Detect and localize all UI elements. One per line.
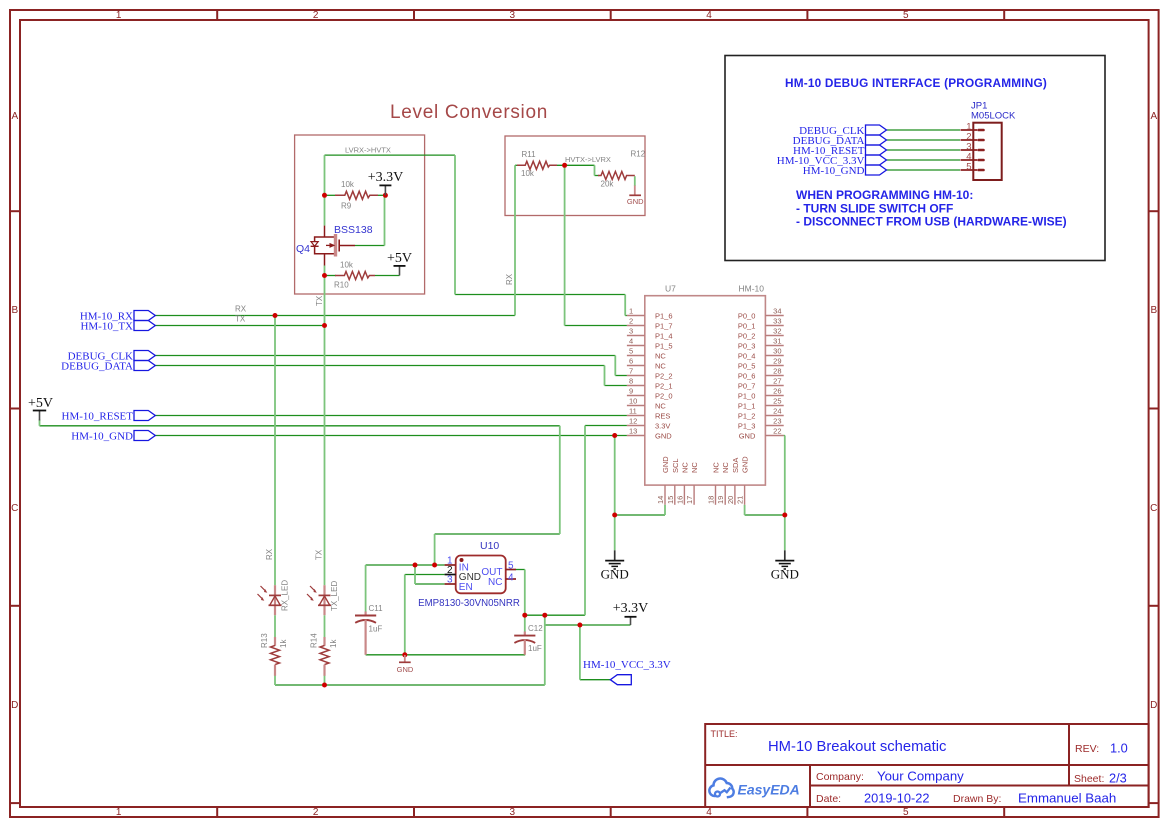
wire R11 left lead	[515, 164, 518, 166]
wire DEBUG_CLK row	[155, 355, 615, 357]
wire R12 to GND	[634, 176, 636, 186]
svg-text:Date:: Date:	[816, 793, 841, 805]
svg-text:P0_7: P0_7	[738, 381, 756, 390]
debug box note text	[796, 188, 1067, 229]
svg-text:R9: R9	[341, 202, 352, 211]
svg-text:32: 32	[773, 327, 781, 336]
U7 right pin stubs 34-22	[765, 316, 783, 436]
svg-text:5: 5	[903, 807, 909, 818]
wire RX row	[155, 315, 515, 317]
svg-text:D: D	[11, 700, 18, 711]
svg-text:P2_1: P2_1	[655, 381, 673, 390]
wire 3.3V net column	[584, 426, 586, 616]
node R9 right +3.3V junction	[383, 193, 388, 198]
port flag HM-10_GND	[71, 430, 155, 442]
ground GND at R12	[627, 186, 644, 206]
node U7 pin13 GND junction	[612, 433, 617, 438]
ground earth symbol right	[771, 550, 799, 581]
wire U10 GND drop	[404, 575, 406, 655]
svg-text:P0_4: P0_4	[738, 351, 756, 360]
wire junction to U7 pin2	[565, 325, 627, 327]
wire HVTX node to R12	[557, 164, 595, 166]
capacitor C12 1uF	[514, 624, 543, 655]
wire DEBUG_DATA to JP1 pin2	[887, 139, 961, 141]
svg-text:23: 23	[773, 417, 781, 426]
wire jog to R12	[594, 165, 596, 175]
resistor R12 20k	[598, 150, 646, 189]
wire pin14 riser	[664, 505, 666, 515]
wire TX column lower	[324, 266, 326, 586]
svg-text:HM-10 DEBUG INTERFACE (PROGRAM: HM-10 DEBUG INTERFACE (PROGRAMMING)	[785, 76, 1047, 90]
svg-text:HM-10 Breakout schematic: HM-10 Breakout schematic	[768, 739, 947, 755]
U7 bottom pin names	[661, 456, 750, 473]
svg-text:10k: 10k	[341, 180, 355, 189]
op-amp U7 HM-10 module body	[645, 284, 766, 486]
svg-text:Q4: Q4	[296, 243, 310, 255]
svg-text:19: 19	[716, 496, 725, 504]
power +5V at left	[28, 396, 53, 421]
title block frame	[705, 724, 1148, 807]
svg-text:HM-10_GND: HM-10_GND	[71, 430, 133, 442]
svg-text:26: 26	[773, 387, 781, 396]
svg-text:C12: C12	[528, 624, 543, 633]
wire LED rail	[275, 684, 545, 686]
port flag DEBUG_DATA	[61, 360, 155, 372]
wire U7 GND left drop	[614, 436, 616, 551]
ground earth symbol left	[601, 550, 629, 581]
svg-text:R14: R14	[309, 633, 318, 648]
wire to VCC flag	[580, 679, 610, 681]
wire TX row	[155, 325, 324, 327]
wire HM-10_VCC_3.3V to JP1 pin4	[887, 159, 961, 161]
svg-text:13: 13	[629, 427, 637, 436]
svg-text:4: 4	[706, 10, 712, 21]
svg-text:8: 8	[629, 377, 633, 386]
power +3.3V at R9	[368, 170, 404, 195]
wire OUT drop	[524, 570, 526, 616]
wire R13 to rail	[274, 676, 276, 686]
svg-text:25: 25	[773, 397, 781, 406]
svg-text:NC: NC	[680, 462, 689, 473]
wire left GND link	[615, 514, 665, 516]
wire VCC flag drop	[579, 625, 581, 680]
svg-text:16: 16	[675, 496, 684, 504]
svg-text:5: 5	[966, 162, 971, 173]
svg-text:TX_LED: TX_LED	[330, 581, 339, 611]
U7 bottom pin stubs 14-21	[665, 485, 745, 505]
svg-text:5: 5	[508, 560, 514, 571]
node capacitor GND junction	[402, 652, 407, 657]
svg-text:P1_3: P1_3	[738, 421, 756, 430]
svg-text:HM-10_GND: HM-10_GND	[803, 165, 865, 177]
wire 3.3V rail to LED rail	[544, 625, 546, 685]
svg-text:RX: RX	[505, 273, 514, 285]
svg-text:15: 15	[666, 496, 675, 504]
port flag HM-10_TX	[80, 320, 155, 332]
svg-text:C: C	[1150, 503, 1157, 514]
wire C12 top lead	[524, 615, 526, 631]
svg-text:RES: RES	[655, 411, 670, 420]
wire R10 leads	[325, 275, 337, 277]
wire RX riser to R11	[514, 165, 516, 315]
svg-text:P2_2: P2_2	[655, 371, 673, 380]
svg-text:P0_3: P0_3	[738, 341, 756, 350]
svg-text:Your Company: Your Company	[877, 769, 964, 784]
wire OUT jog down	[544, 615, 546, 625]
ground GND at capacitors	[397, 655, 414, 674]
svg-text:NC: NC	[488, 577, 502, 588]
svg-text:2019-10-22: 2019-10-22	[864, 791, 929, 806]
svg-text:1k: 1k	[329, 639, 338, 648]
svg-text:P1_5: P1_5	[655, 341, 673, 350]
svg-text:GND: GND	[739, 431, 756, 440]
svg-text:REV:: REV:	[1075, 743, 1099, 755]
svg-text:P0_2: P0_2	[738, 331, 756, 340]
svg-text:1uF: 1uF	[528, 644, 542, 653]
svg-text:HM-10_TX: HM-10_TX	[80, 320, 133, 332]
LED RX_LED	[258, 580, 290, 616]
U7 left pin names	[655, 311, 673, 440]
svg-text:R12: R12	[631, 150, 646, 159]
svg-text:HVTX->LVRX: HVTX->LVRX	[565, 155, 611, 164]
connector JP1 pin numbers	[966, 122, 971, 173]
svg-text:31: 31	[773, 337, 781, 346]
svg-text:3: 3	[510, 10, 516, 21]
svg-text:NC: NC	[655, 351, 666, 360]
svg-text:EasyEDA: EasyEDA	[738, 782, 800, 798]
wire C11 top lead	[365, 565, 367, 612]
svg-text:2: 2	[313, 10, 319, 21]
node HVTX->LVRX junction	[562, 163, 567, 168]
svg-text:C: C	[11, 503, 18, 514]
wire Q4 gate lead	[355, 245, 385, 247]
svg-text:P0_5: P0_5	[738, 361, 756, 370]
svg-text:- DISCONNECT FROM USB (HARDWAR: - DISCONNECT FROM USB (HARDWARE-WISE)	[796, 215, 1067, 229]
svg-text:30: 30	[773, 347, 781, 356]
svg-text:NC: NC	[721, 462, 730, 473]
svg-text:6: 6	[629, 357, 633, 366]
wire HVTX node drop to pin2	[564, 165, 566, 325]
svg-text:GND: GND	[661, 456, 670, 473]
svg-text:EN: EN	[459, 582, 473, 593]
port flag HM-10_RX	[80, 310, 155, 322]
svg-text:EMP8130-30VN05NRR: EMP8130-30VN05NRR	[418, 598, 520, 609]
svg-text:3: 3	[629, 327, 633, 336]
wire U10 EN row	[415, 583, 445, 585]
svg-text:M05LOCK: M05LOCK	[971, 111, 1016, 122]
svg-text:P1_0: P1_0	[738, 391, 756, 400]
svg-text:2: 2	[629, 317, 633, 326]
svg-text:3: 3	[510, 807, 516, 818]
svg-text:17: 17	[685, 496, 694, 504]
svg-text:7: 7	[629, 367, 633, 376]
port flag DEBUG_CLK (debug box)	[799, 125, 886, 137]
EasyEDA logo	[709, 778, 799, 797]
wire HM-10_GND row	[155, 435, 627, 437]
port flag DEBUG_CLK	[68, 350, 156, 362]
svg-text:29: 29	[773, 357, 781, 366]
svg-text:TX: TX	[315, 549, 324, 560]
svg-text:1uF: 1uF	[369, 625, 383, 634]
resistor R10 10k	[334, 261, 375, 290]
node C12/OUT junction	[522, 613, 527, 618]
wire gate riser to +3.3V	[384, 195, 386, 245]
LED TX_LED	[307, 581, 339, 616]
svg-text:28: 28	[773, 367, 781, 376]
svg-text:GND: GND	[771, 567, 799, 582]
resistor R13 1k	[260, 633, 288, 676]
node R14 LED rail junction	[322, 683, 327, 688]
svg-text:TX: TX	[235, 315, 246, 324]
svg-text:C11: C11	[369, 604, 384, 613]
resistor R9 10k	[335, 180, 378, 211]
connector JP1 pin stubs	[961, 130, 978, 170]
wire +5V stem lower	[39, 420, 41, 426]
svg-text:NC: NC	[690, 462, 699, 473]
svg-text:33: 33	[773, 317, 781, 326]
svg-text:U7: U7	[665, 284, 676, 294]
wire DEBUG_CLK to JP1 pin1	[887, 129, 961, 131]
svg-text:1.0: 1.0	[1110, 741, 1128, 756]
svg-text:2: 2	[313, 807, 319, 818]
node R9 left junction	[322, 193, 327, 198]
level conversion sub-circuit box	[295, 135, 425, 294]
wire LVRX->HVTX drop	[454, 155, 456, 294]
svg-text:TX: TX	[315, 295, 324, 306]
wire TX LED to R14	[324, 615, 326, 637]
svg-text:HM-10_RESET: HM-10_RESET	[62, 410, 134, 422]
wire 3.3V row	[545, 624, 631, 626]
svg-text:Drawn By:: Drawn By:	[953, 793, 1001, 805]
svg-text:A: A	[1150, 111, 1157, 122]
node right GND junction	[782, 513, 787, 518]
svg-text:20k: 20k	[601, 180, 615, 189]
node OUT rail jog junction	[542, 613, 547, 618]
port flag HM-10_GND (debug box)	[803, 165, 887, 177]
wire R14 to rail	[324, 676, 326, 686]
transistor Q4 BSS138	[296, 224, 373, 266]
svg-text:+3.3V: +3.3V	[368, 170, 404, 185]
svg-text:GND: GND	[397, 665, 414, 674]
svg-text:10k: 10k	[340, 261, 354, 270]
U7 left pin numbers	[629, 307, 637, 436]
svg-text:5: 5	[629, 347, 633, 356]
node TX/TX_LED junction	[322, 323, 327, 328]
svg-text:NC: NC	[655, 361, 666, 370]
wire HM-10_RESET to JP1 pin3	[887, 149, 961, 151]
svg-text:10k: 10k	[521, 169, 535, 178]
svg-text:P1_1: P1_1	[738, 401, 756, 410]
debug interface box	[725, 56, 1105, 261]
wire OUT rail	[525, 614, 585, 616]
svg-text:GND: GND	[655, 431, 672, 440]
port flag HM-10_VCC_3.3V output	[583, 659, 671, 685]
wire RX LED to R13	[274, 615, 276, 637]
svg-text:14: 14	[656, 496, 665, 504]
svg-text:1: 1	[116, 10, 122, 21]
svg-text:RX: RX	[265, 548, 274, 560]
wire +5V rail	[40, 425, 560, 427]
resistor R11 10k	[517, 150, 557, 178]
node R10 left junction	[322, 273, 327, 278]
wire U7 pin22 drop	[784, 436, 786, 551]
svg-text:1: 1	[116, 807, 122, 818]
svg-text:GND: GND	[741, 456, 750, 473]
svg-text:LVRX->HVTX: LVRX->HVTX	[345, 146, 391, 155]
svg-text:WHEN PROGRAMMING HM-10:: WHEN PROGRAMMING HM-10:	[796, 188, 973, 202]
svg-text:HM-10: HM-10	[738, 284, 764, 294]
svg-text:1k: 1k	[279, 639, 288, 648]
wire U10 GND row	[405, 574, 445, 576]
wire U7 pin12 row	[585, 425, 627, 427]
svg-text:P1_4: P1_4	[655, 331, 673, 340]
U7 bottom pin numbers	[656, 496, 745, 504]
svg-text:SDA: SDA	[731, 458, 740, 473]
power +3.3V at C12	[613, 601, 649, 625]
svg-text:P0_0: P0_0	[738, 311, 756, 320]
svg-text:DEBUG_DATA: DEBUG_DATA	[61, 360, 133, 372]
port flag HM-10_RESET (debug box)	[793, 145, 887, 157]
svg-text:R11: R11	[522, 150, 537, 159]
wire CLK jog	[614, 356, 616, 376]
wire LVRX->HVTX top	[325, 154, 456, 156]
svg-text:NC: NC	[655, 401, 666, 410]
svg-text:R10: R10	[334, 281, 349, 290]
resistor R14 1k	[309, 633, 338, 676]
HVTX->LVRX sub-circuit box	[505, 136, 645, 216]
svg-text:P1_6: P1_6	[655, 311, 673, 320]
svg-text:Emmanuel Baah: Emmanuel Baah	[1018, 791, 1116, 806]
svg-text:Sheet:: Sheet:	[1074, 773, 1104, 785]
svg-text:27: 27	[773, 377, 781, 386]
wire DEBUG_DATA row	[155, 365, 604, 367]
node RX/RX_LED junction	[273, 313, 278, 318]
svg-text:9: 9	[629, 387, 633, 396]
node U10 IN +5V junction	[432, 563, 437, 568]
svg-text:RX: RX	[235, 305, 247, 314]
wire capacitor ground rail	[366, 654, 526, 656]
svg-text:D: D	[1150, 700, 1157, 711]
svg-text:1: 1	[629, 307, 633, 316]
svg-text:12: 12	[629, 417, 637, 426]
svg-text:+5V: +5V	[387, 251, 412, 266]
svg-text:- TURN SLIDE SWITCH OFF: - TURN SLIDE SWITCH OFF	[796, 201, 953, 215]
wire RX LED column	[274, 316, 276, 586]
svg-text:+5V: +5V	[28, 396, 53, 411]
svg-text:Level Conversion: Level Conversion	[390, 102, 548, 123]
node left GND junction	[612, 513, 617, 518]
svg-text:P1_2: P1_2	[738, 411, 756, 420]
wire U10 IN row	[366, 564, 445, 566]
wire EN riser	[414, 565, 416, 584]
wire +5V drop	[559, 426, 561, 534]
svg-text:24: 24	[773, 407, 781, 416]
svg-text:3: 3	[447, 575, 453, 586]
capacitor C11 1uF	[355, 604, 383, 655]
port flag DEBUG_DATA (debug box)	[793, 135, 887, 147]
wire to U7 pin1	[455, 294, 625, 296]
svg-text:R13: R13	[260, 633, 269, 648]
wire right GND link	[745, 514, 785, 516]
svg-text:+3.3V: +3.3V	[613, 601, 649, 616]
svg-text:B: B	[1150, 305, 1157, 316]
wire U10 OUT lead	[516, 569, 525, 571]
wire HM-10_GND to JP1 pin5	[887, 169, 961, 171]
svg-text:P1_7: P1_7	[655, 321, 673, 330]
svg-text:TITLE:: TITLE:	[711, 729, 738, 739]
svg-text:RX_LED: RX_LED	[281, 580, 290, 611]
U7 right pin names	[738, 311, 756, 440]
node U10 EN/IN junction	[413, 563, 418, 568]
svg-text:GND: GND	[601, 567, 629, 582]
svg-text:20: 20	[726, 496, 735, 504]
wire jog to pin1	[624, 295, 626, 316]
wire +5V to U10 IN	[434, 534, 436, 565]
port flag HM-10_RESET	[62, 410, 156, 422]
svg-text:GND: GND	[627, 197, 644, 206]
svg-text:2/3: 2/3	[1109, 771, 1127, 786]
svg-text:18: 18	[707, 496, 716, 504]
svg-text:21: 21	[736, 496, 745, 504]
svg-text:BSS138: BSS138	[334, 224, 373, 236]
U7 left pin stubs 1-13	[627, 316, 645, 436]
svg-text:P0_6: P0_6	[738, 371, 756, 380]
svg-text:P0_1: P0_1	[738, 321, 756, 330]
U7 right pin numbers	[773, 307, 781, 436]
power +5V at R10	[387, 251, 412, 276]
svg-text:NC: NC	[712, 462, 721, 473]
svg-text:4: 4	[706, 807, 712, 818]
wire TX column upper	[324, 155, 326, 226]
regulator U10 EMP8130	[418, 540, 520, 609]
svg-text:5: 5	[903, 10, 909, 21]
svg-text:Company:: Company:	[816, 771, 864, 783]
wire HM-10_RESET row	[155, 415, 627, 417]
node VCC flag branch junction	[577, 623, 582, 628]
svg-text:SCL: SCL	[671, 458, 680, 473]
svg-text:22: 22	[773, 427, 781, 436]
svg-text:11: 11	[629, 407, 637, 416]
svg-text:P2_0: P2_0	[655, 391, 673, 400]
svg-text:A: A	[11, 111, 18, 122]
wire R9 leads	[325, 194, 337, 196]
svg-text:34: 34	[773, 307, 781, 316]
port flag HM-10_VCC_3.3V (debug box)	[777, 155, 887, 167]
svg-text:10: 10	[629, 397, 637, 406]
svg-text:U10: U10	[480, 540, 499, 552]
svg-text:B: B	[11, 305, 18, 316]
svg-text:4: 4	[508, 572, 514, 583]
wire DATA jog	[604, 366, 606, 386]
svg-text:3.3V: 3.3V	[655, 421, 670, 430]
svg-text:HM-10_VCC_3.3V: HM-10_VCC_3.3V	[583, 659, 671, 671]
connector JP1 M05LOCK body	[973, 123, 1001, 180]
svg-text:4: 4	[629, 337, 633, 346]
wire pin21 riser	[744, 505, 746, 515]
